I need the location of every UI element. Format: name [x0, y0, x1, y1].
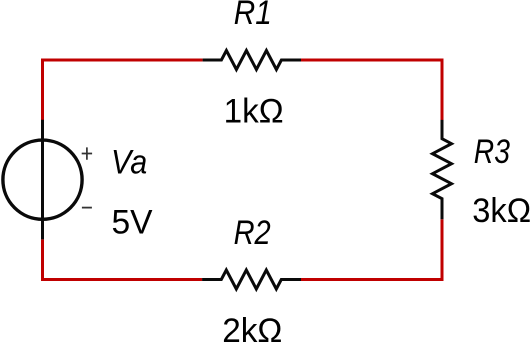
svg-text:R1: R1 [234, 0, 272, 32]
wire [301, 219, 442, 279]
svg-text:5V: 5V [112, 204, 153, 242]
plus terminal mark [82, 147, 92, 159]
wire [43, 60, 203, 120]
resistor R1 [203, 51, 301, 70]
minus terminal mark [82, 207, 92, 209]
svg-text:R3: R3 [474, 133, 510, 171]
svg-text:2kΩ: 2kΩ [222, 312, 282, 342]
resistor R3 [433, 120, 452, 219]
voltage source Va lead [41, 120, 44, 240]
svg-text:R2: R2 [234, 214, 271, 252]
resistor R2 [202, 270, 301, 289]
wire [301, 60, 442, 120]
svg-text:Va: Va [111, 144, 147, 182]
wire [43, 239, 203, 279]
svg-text:3kΩ: 3kΩ [472, 192, 530, 230]
svg-text:1kΩ: 1kΩ [224, 93, 284, 131]
voltage source Va circle [3, 140, 82, 219]
